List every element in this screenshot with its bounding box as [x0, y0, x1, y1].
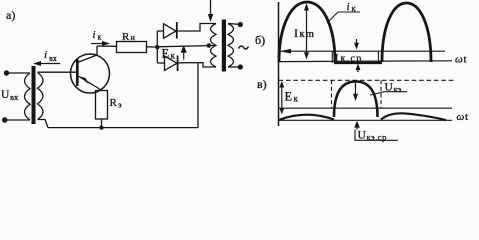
- svg-text:вх: вх: [49, 54, 57, 63]
- Ik.sr box right edge: [378, 51, 380, 63]
- svg-text:в): в): [257, 77, 267, 91]
- svg-text:к: к: [294, 94, 299, 104]
- small arrow down to Ik.sr line: [356, 39, 358, 44]
- transformer T2 core: [222, 20, 226, 72]
- resistor Re: [96, 91, 108, 120]
- dashed top line Ek level: [279, 79, 455, 81]
- diode D2 bottom: [157, 62, 164, 64]
- svg-text:ω: ω: [455, 54, 463, 66]
- zero-level thick segment between pulses: [334, 62, 382, 64]
- wire base: [38, 71, 78, 73]
- T2 secondary wires and dots: [228, 23, 239, 26]
- svg-text:t: t: [464, 54, 467, 66]
- node T2 center tap: [207, 43, 212, 48]
- svg-text:U: U: [1, 89, 10, 101]
- transformer T1 primary winding: [25, 73, 31, 120]
- wire top input: [8, 72, 30, 74]
- wire Ek middle: [157, 46, 209, 47]
- label Ek: [162, 47, 176, 61]
- pulse 2 of ik: [382, 3, 431, 62]
- svg-text:i: i: [44, 49, 47, 61]
- wire Re bottom: [101, 119, 103, 128]
- diode D1 top: [157, 30, 163, 32]
- svg-text:вх: вх: [10, 92, 19, 102]
- transistor Q1 emitter: [77, 76, 102, 91]
- input terminal bottom dot: [2, 117, 7, 122]
- AC symbol ~: [239, 46, 249, 49]
- svg-text:E: E: [162, 47, 170, 61]
- wire collector to Rn: [97, 45, 117, 47]
- transformer T2 secondary winding: [228, 24, 234, 68]
- svg-text:к: к: [171, 51, 176, 61]
- svg-text:E: E: [285, 90, 293, 104]
- Ek double arrow: [281, 85, 283, 110]
- svg-text:кэ: кэ: [394, 84, 402, 94]
- svg-text:R: R: [110, 97, 118, 109]
- dashed vertical right: [380, 80, 382, 108]
- svg-text:к.ср: к.ср: [341, 54, 363, 65]
- svg-text:ω: ω: [457, 111, 465, 123]
- label Ukz with leader: [385, 82, 402, 95]
- transistor Q1 collector: [77, 46, 97, 63]
- transformer T1 secondary winding: [38, 73, 44, 120]
- axis horizontal wt (b): [279, 60, 453, 63]
- resistor Rn: [117, 42, 147, 53]
- line B axis wt (v): [279, 119, 453, 121]
- small hump left: [279, 115, 335, 120]
- svg-text:I: I: [294, 26, 298, 40]
- label i_k top: [93, 29, 102, 42]
- label Ik.sr: [335, 51, 363, 65]
- svg-text:кэ.ср: кэ.ср: [367, 132, 387, 142]
- label Ek (v): [285, 90, 299, 104]
- wire vertical diode branch: [156, 31, 158, 63]
- Ikm double arrow: [306, 7, 308, 55]
- Ik.sr level line with left arrow: [281, 50, 445, 52]
- transformer T1 core: [32, 66, 36, 124]
- svg-text:U: U: [358, 130, 367, 142]
- svg-text:к: к: [98, 33, 102, 42]
- line A (upper solid): [279, 107, 453, 109]
- arrow i_k (pointing right): [91, 43, 104, 45]
- small arrow up to zero line: [357, 69, 359, 72]
- svg-text:а): а): [6, 8, 15, 22]
- transformer T2 primary winding: [211, 24, 217, 68]
- svg-text:i: i: [93, 29, 96, 41]
- transistor Q1 circle: [71, 54, 110, 93]
- bottom rail: [48, 127, 198, 129]
- arrow Ek (pointing up): [183, 51, 185, 60]
- arrow down inside hump: [355, 83, 357, 95]
- node Re rail: [99, 126, 103, 130]
- label Re: [110, 97, 123, 110]
- small hump right: [381, 113, 446, 120]
- label Uvx: [1, 89, 19, 102]
- svg-text:i: i: [347, 1, 350, 13]
- svg-text:э: э: [118, 100, 122, 110]
- label Ikm: [294, 26, 315, 40]
- node after Rn: [155, 45, 159, 49]
- svg-text:б): б): [255, 33, 265, 47]
- wire Rn to node: [147, 46, 158, 48]
- Ik.sr box left edge: [331, 51, 333, 63]
- dashed vertical left: [331, 80, 333, 108]
- label Rn: [122, 31, 136, 43]
- svg-text:R: R: [122, 31, 130, 43]
- svg-text:н: н: [131, 33, 136, 42]
- big hump Ukz: [334, 82, 378, 118]
- svg-text:кm: кm: [300, 29, 316, 40]
- wire T1 secondary bottom to rail: [38, 120, 49, 128]
- svg-text:I: I: [335, 51, 339, 65]
- pulse 1 of ik: [279, 2, 335, 62]
- label wt (v): [457, 111, 469, 123]
- label ik with leader: [347, 1, 357, 13]
- transistor Q1 base bar: [76, 60, 79, 87]
- label Ukz.sr box: [355, 130, 398, 141]
- svg-text:t: t: [465, 111, 468, 123]
- wire bottom branch to rail: [197, 63, 199, 128]
- axis vertical (b): [278, 2, 280, 126]
- arrow i_vx (pointing left): [36, 63, 60, 65]
- wire bottom input: [6, 119, 30, 121]
- arrow into T2 top (pointing down): [210, 0, 212, 15]
- transistor Q1 emitter arrow (PNP, pointing to base): [79, 76, 89, 84]
- label wt (b): [455, 54, 467, 66]
- input terminal top dot: [4, 70, 9, 75]
- label i_vx: [44, 49, 57, 63]
- arrow up to axis B: [356, 126, 358, 130]
